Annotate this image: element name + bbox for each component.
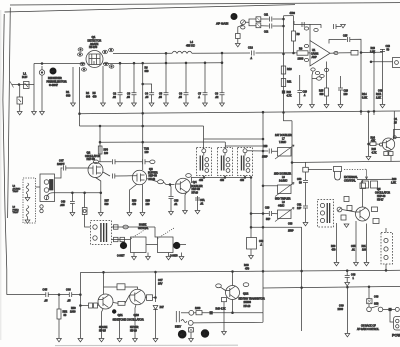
line y126 [80,125,204,127]
wire up to Q1 line [33,64,35,85]
link [113,302,118,305]
svg-text:56P: 56P [266,218,271,221]
output wire [330,52,338,54]
svg-text:Q5: Q5 [377,187,381,191]
C-trimmer drop [19,85,21,98]
capacitor C5 drop [165,62,167,64]
svg-text:455: 455 [220,179,225,182]
svg-text:470: 470 [132,203,137,206]
svg-text:680: 680 [66,94,71,98]
svg-text:.05: .05 [179,96,183,99]
C48 between buses [345,271,350,282]
svg-text:.05: .05 [159,96,163,99]
svg-text:POWER: POWER [392,334,400,338]
svg-text:455: 455 [240,179,245,182]
svg-text:684: 684 [86,96,91,99]
svg-text:Q3: Q3 [149,167,153,171]
capacitor C3 drop [133,62,135,64]
svg-text:100: 100 [145,151,150,154]
base boxes [80,305,88,307]
wire y63.5 to Q1 [34,63,85,65]
svg-text:HT-15: HT-15 [99,330,106,333]
svg-text:100: 100 [146,203,151,206]
svg-text:RECEIVER: RECEIVER [48,76,62,80]
svg-text:R10: R10 [287,68,292,71]
svg-text:4.7K: 4.7K [287,95,292,98]
border inner top [5,5,296,12]
svg-text:U1: U1 [312,48,316,52]
svg-text:33: 33 [299,182,302,185]
svg-text:4700: 4700 [290,12,296,15]
svg-text:C12: C12 [264,32,269,34]
svg-text:1000: 1000 [195,307,201,310]
power connector [394,317,400,331]
svg-text:HT-17: HT-17 [377,198,384,201]
svg-text:33: 33 [64,314,67,317]
svg-text:100PF: 100PF [57,163,65,166]
svg-text:2000: 2000 [338,308,344,311]
svg-text:Q1: Q1 [92,35,96,39]
crystal switch area [82,208,87,215]
svg-text:560: 560 [105,203,110,206]
svg-text:C48: C48 [61,202,66,204]
svg-text:650: 650 [145,70,150,73]
external crystal plug [334,167,342,172]
misc small boxes [344,197,349,202]
emitters [102,309,104,338]
capacitor C2 drop [119,62,121,64]
svg-text:C13: C13 [248,46,253,50]
long vertical net x263 [262,112,264,313]
main bus y113.8-111 [79,111,400,114]
pot network boxes [256,17,261,22]
svg-text:C46: C46 [66,289,71,292]
svg-text:L1: L1 [23,72,27,76]
svg-text:CRYSTAL: CRYSTAL [138,227,149,230]
C11 C12 [270,17,272,29]
phones jack [393,58,400,68]
xtal boxes [131,237,147,253]
C47 coupling [55,168,62,179]
border outer left [3,14,7,295]
RF choke [39,70,44,75]
C18 [374,49,385,104]
svg-text:.05: .05 [145,96,149,99]
svg-text:470: 470 [245,268,250,271]
feedback loop top [329,37,361,53]
L4 coil [172,51,192,53]
svg-text:47.5MC: 47.5MC [13,188,21,190]
L_B line y53 [113,52,172,54]
svg-text:680: 680 [320,93,325,96]
svg-text:.02: .02 [113,96,117,99]
node dot [18,84,20,86]
svg-text:Q11: Q11 [118,313,124,317]
svg-text:C48: C48 [374,295,379,298]
wire y227.3 [251,214,302,228]
Q1 pin wires down [72,67,74,103]
Q12 [232,272,234,286]
svg-text:Q12: Q12 [243,292,249,296]
wire y213.5 to L9 [251,211,278,216]
line y142 [142,113,144,170]
end box right [394,130,400,138]
right box [145,296,146,299]
U1 drops [312,71,313,104]
T1 secondary return wire [47,193,101,200]
KEY jack [176,311,179,322]
svg-text:.1: .1 [198,96,201,99]
capacitor C7 drop [204,62,206,64]
svg-text:C29: C29 [265,207,270,210]
svg-text:AF GAIN CONTROL: AF GAIN CONTROL [357,328,380,331]
C17 cap to gnd [334,24,342,29]
svg-text:AF: AF [232,16,236,19]
capacitor C6 drop [185,62,187,64]
svg-text:MIC: MIC [180,333,185,336]
svg-text:50: 50 [387,49,390,52]
T1 box left [40,174,55,202]
svg-text:HEP-56: HEP-56 [87,158,96,161]
svg-text:1: 1 [353,277,355,280]
feedback loop [104,286,118,288]
svg-text:Z47: Z47 [160,306,165,309]
svg-text:HT-18: HT-18 [244,305,251,308]
svg-text:HT-20: HT-20 [130,330,137,333]
Q1 pin3 drop [102,66,104,103]
svg-text:TRAP: TRAP [13,190,19,193]
svg-text:C45: C45 [43,289,48,292]
svg-text:1.5K: 1.5K [391,182,396,185]
svg-text:L4: L4 [190,40,193,44]
svg-text:3.3K: 3.3K [362,97,367,100]
dashed link [344,168,367,170]
svg-text:.01: .01 [174,203,178,206]
svg-text:100: 100 [104,152,109,155]
svg-text:Q4: Q4 [193,180,197,184]
svg-text:CRYSTAL: CRYSTAL [344,179,356,183]
svg-text:HEP: HEP [50,71,55,73]
svg-text:Q10: Q10 [134,313,140,317]
svg-text:R9: R9 [299,47,303,51]
svg-text:15V: 15V [158,283,163,286]
R9 series [297,51,308,55]
Q4 collector to can row [192,177,253,183]
svg-text:100: 100 [362,249,367,252]
badges [120,242,127,249]
svg-text:EXTERNAL: EXTERNAL [344,175,358,179]
svg-text:FREQ: FREQ [13,209,19,211]
svg-text:HT-276: HT-276 [89,46,98,49]
svg-text:470: 470 [93,96,98,99]
C38 drop [250,226,252,228]
row2 [112,239,131,241]
svg-text:KEY: KEY [175,325,181,329]
svg-text:.05: .05 [127,96,131,99]
AF GAIN badge [231,13,238,20]
row1 [112,226,156,228]
svg-text:BUF: BUF [22,75,28,79]
capacitor C8 drop [221,62,223,64]
svg-text:2.2K: 2.2K [376,97,381,100]
svg-text:L2: L2 [13,186,16,188]
svg-text:.05: .05 [44,300,48,303]
top line to U1 pin [294,21,310,25]
R54 feed Q2 [99,126,101,162]
C13 series cap [252,51,255,56]
IF can T4 [238,148,253,183]
AF pot [241,20,246,25]
Q1 pin bubbles [78,48,83,51]
Q3 emitter drops [129,184,137,212]
badge preselector [50,68,57,75]
svg-text:L3: L3 [13,207,16,209]
svg-text:1000: 1000 [70,311,76,314]
crystal osc section [305,162,307,167]
svg-text:S1B: S1B [374,303,379,306]
bottom left wire y294.6 [7,292,81,297]
svg-text:455 KC: 455 KC [186,44,195,48]
svg-text:AMP: AMP [312,56,318,59]
svg-text:C-3877: C-3877 [117,256,125,258]
IF can T2 [197,148,212,183]
Q3-Q4 coupling [147,179,158,182]
svg-text:.02: .02 [215,96,219,99]
vertical x283.5 [283,18,285,20]
svg-text:2N398: 2N398 [244,301,252,304]
wire vertical x251 [250,177,252,227]
svg-text:C-3847: C-3847 [49,83,58,87]
Q5 [382,138,394,150]
svg-text:455: 455 [199,179,204,182]
zener Z47 vertical x155.5 [155,272,157,302]
IF can T3 [218,148,233,183]
scan smudge bottom [55,344,238,346]
resistors R10 R11 on vertical x283.5 [284,54,293,121]
svg-text:Q2: Q2 [87,151,91,155]
dotted linkage [131,228,148,239]
wire y151 can3 to L7 [247,149,278,154]
Q1 tube [86,51,103,68]
svg-text:.005: .005 [60,205,65,207]
border outer top [10,3,400,5]
border inner left [8,8,11,219]
Q2 emitter drop [96,178,101,213]
svg-text:4.7K: 4.7K [372,151,377,154]
svg-text:PRESELECTOR: PRESELECTOR [47,80,67,84]
vertical x80.4 [79,273,81,339]
svg-text:TRAP: TRAP [13,211,19,214]
T5 can dashed right [381,233,393,265]
ground stem x34 [33,85,35,112]
svg-text:C33: C33 [288,223,293,226]
svg-text:R11: R11 [287,81,292,84]
svg-text:100: 100 [344,93,349,96]
svg-text:HT-18: HT-18 [192,192,199,195]
svg-text:.1: .1 [260,244,263,247]
svg-text:2.2K: 2.2K [370,50,375,53]
svg-text:470: 470 [332,249,337,252]
capacitor C49 drop x347 [346,287,348,333]
svg-text:.01: .01 [200,202,204,205]
op-amp U1 [310,41,330,67]
svg-text:12P: 12P [297,207,302,210]
wire vertical x301.6 [301,227,303,331]
badges [178,330,187,339]
Q6 drops [336,223,338,262]
svg-text:C15: C15 [343,35,348,38]
svg-text:47K: 47K [371,140,376,143]
svg-text:C28: C28 [263,145,268,148]
rotary contact [337,207,342,212]
svg-text:AF GAIN: AF GAIN [216,22,228,26]
svg-text:14.6MC: 14.6MC [279,180,288,183]
Q6 [356,207,370,221]
R8 [293,16,295,31]
svg-text:C11: C11 [264,15,269,17]
svg-text:.1: .1 [304,94,307,97]
svg-text:N-MHZ: N-MHZ [139,225,147,227]
coil L1 box [24,82,30,89]
grounds under boxes [133,253,135,257]
Q5 emitter boxes [384,152,388,156]
svg-text:R1: R1 [66,90,70,94]
Q4 drops [185,192,187,211]
bottom bus y271.5 [80,270,400,272]
wire y287.6 [263,286,400,288]
svg-text:KEYING TRANSISTOR: KEYING TRANSISTOR [239,298,265,301]
svg-text:1000: 1000 [298,57,304,61]
svg-text:7.3MC: 7.3MC [279,141,286,144]
svg-text:R8: R8 [297,33,301,36]
svg-text:SIDETONE OSCILLATOR: SIDETONE OSCILLATOR [113,318,144,322]
vertical x292 to mixer line [283,112,285,114]
crystal can dashed [318,200,334,228]
svg-text:250P: 250P [288,230,294,233]
top coupling row [93,160,98,164]
svg-text:.1: .1 [250,56,253,60]
svg-text:.01: .01 [352,249,356,252]
svg-text:.05: .05 [67,300,71,303]
Q2-Q3 coupling [103,172,133,179]
dark pin [112,309,116,313]
Q11/Q10 [103,272,105,294]
pot bottom ground [238,25,243,34]
power switch [368,287,370,299]
wire y162.5 long [291,121,293,185]
antenna jack J1 [12,84,34,86]
main bus y63 [103,62,222,65]
svg-text:25: 25 [394,122,397,125]
svg-text:44MC: 44MC [278,205,285,208]
trap dashed box [23,178,36,223]
resistor R6 vertical and C4 drop [142,62,144,64]
